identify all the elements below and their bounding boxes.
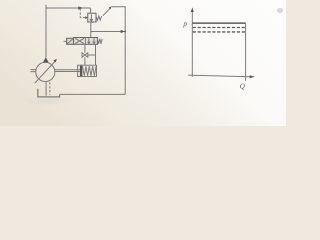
wire: below throttle to cylinder (84, 57, 86, 65)
pump outlet triangle (43, 57, 49, 62)
crossed arrows in left position of V2 (75, 38, 84, 43)
adjustment arrow of valve V1 (103, 8, 110, 15)
variable displacement arrow through pump (35, 61, 56, 83)
wire: return line bottom to tank (60, 93, 126, 95)
svg-text:p: p (182, 20, 187, 28)
wire: drop into regulator valve inlet (90, 8, 92, 13)
wire: valve V1 outlet down to directional valve (90, 22, 92, 38)
svg-text:Q: Q (240, 83, 245, 91)
spring in control cylinder (83, 66, 97, 76)
pilot line (dashed) to valve V1 (80, 9, 85, 18)
pump P1 circle (36, 62, 55, 81)
graph vertical axis p (191, 11, 193, 77)
wire: pump outlet vertical line to top corner (45, 5, 47, 58)
spring of valve V1 (96, 16, 102, 20)
shut-off / throttle (bowtie) (82, 53, 88, 57)
drive shaft (double line) (31, 70, 36, 72)
page background (0, 0, 286, 126)
flow arrow on top line (78, 6, 83, 9)
wire: valve V2 port B down to cylinder (95, 44, 97, 65)
solenoid stub (64, 40, 67, 42)
directional valve V2 body (74, 38, 98, 45)
spring of valve V2 (97, 39, 102, 44)
arrow inside valve V1 (90, 14, 92, 21)
arrows in right position of V2 (88, 38, 95, 43)
wire: return line down right side (124, 32, 126, 95)
graph horizontal axis Q (188, 75, 250, 77)
arrowhead on branch line (121, 30, 125, 33)
feedback loop line around right side (112, 7, 126, 32)
drain line (dashed) to tank (49, 82, 51, 95)
dashed characteristic line 2 (193, 31, 246, 33)
wire: pump suction into tank (45, 82, 47, 96)
piston of control cylinder (80, 66, 82, 77)
dashed characteristic line 1 (193, 27, 246, 29)
piston rod (double line) to pump (55, 70, 80, 72)
solenoid of valve V2 (67, 38, 74, 44)
characteristic curve: constant pressure line (192, 22, 245, 24)
pilot arrowhead at valve V1 (85, 16, 88, 19)
wire: branch from valve outlet to return line (91, 31, 121, 33)
characteristic curve: flow cut-off drop (245, 23, 247, 81)
wire: top pressure line (46, 7, 91, 9)
control cylinder body (78, 65, 97, 76)
scan speck (277, 8, 283, 13)
pressure control valve V1 body (88, 13, 96, 22)
wire: bridge to B line (88, 54, 96, 56)
wire: valve V2 port A down (84, 44, 86, 53)
tank symbol (38, 89, 60, 97)
node: junction at branch / return (124, 31, 126, 33)
